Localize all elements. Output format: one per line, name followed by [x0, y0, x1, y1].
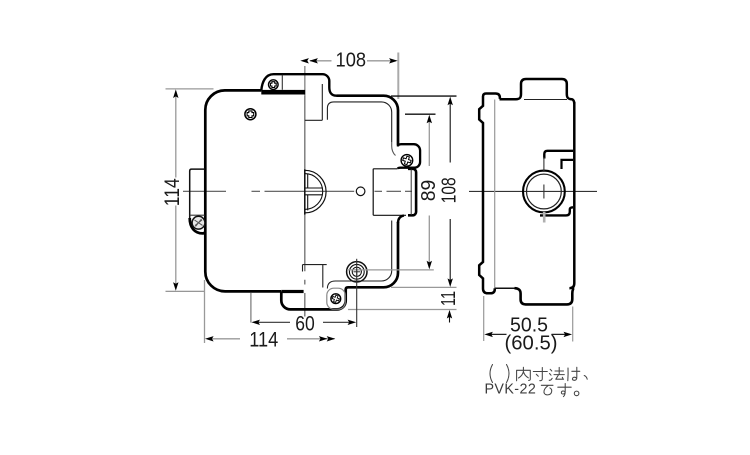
- lid inner line: [494, 100, 496, 289]
- （: [490, 365, 493, 383]
- svg-text:11: 11: [437, 291, 460, 306]
- で: [541, 385, 553, 395]
- screw top tab: [269, 80, 279, 90]
- top-right screw pocket: [398, 144, 420, 169]
- 、: [584, 376, 587, 380]
- screw left tab: [192, 216, 205, 229]
- dim 114 bottom: [204, 280, 206, 343]
- dim 89: [405, 113, 436, 115]
- lid profile: [479, 94, 495, 294]
- side hub collar bottom: [540, 207, 573, 215]
- svg-text:114: 114: [249, 327, 278, 351]
- circle centermarks: [543, 157, 545, 172]
- ）: [507, 365, 510, 383]
- centre knockout: [305, 169, 326, 214]
- box top edge + top hub: [500, 79, 575, 104]
- top tab bar: [261, 90, 305, 95]
- lid hinge tab top: [486, 94, 500, 99]
- box bottom edge thin: [495, 287, 516, 289]
- top tab: [261, 74, 336, 96]
- dim 108 right: [391, 95, 457, 97]
- box outline bottom/right: [281, 222, 398, 309]
- lid outline: [205, 90, 281, 291]
- screw lid top-left: [245, 109, 256, 120]
- dim 108 top: [397, 53, 399, 100]
- left tab: [190, 169, 205, 218]
- small hole: [356, 187, 365, 196]
- dim 50.5: [483, 296, 485, 341]
- top hub lines: [305, 84, 322, 120]
- box right edge: [569, 102, 574, 288]
- dim 11: [348, 309, 457, 311]
- dim 60: [250, 293, 252, 323]
- centerline horizontal: [469, 190, 597, 192]
- screw pocket screw: [401, 155, 413, 167]
- right tab inner line: [410, 169, 412, 215]
- svg-text:60: 60: [295, 312, 315, 336]
- す: [558, 384, 571, 397]
- svg-text:(60.5): (60.5): [505, 332, 558, 354]
- centerline vertical: [304, 66, 306, 96]
- svg-text:89: 89: [417, 180, 440, 202]
- svg-text:108: 108: [336, 49, 367, 72]
- right tab thick edge: [408, 169, 416, 216]
- dim 114 left: [166, 88, 214, 90]
- 法: [549, 367, 564, 380]
- side hub collar top: [544, 151, 573, 159]
- bottom screw pocket (grey): [327, 288, 345, 309]
- bottom hub lines: [303, 265, 327, 288]
- box inner line top: [327, 102, 391, 142]
- box top edge thin under hub: [524, 99, 567, 101]
- 内: [517, 367, 531, 381]
- svg-text:108: 108: [438, 177, 461, 203]
- top tab divider: [281, 75, 283, 90]
- svg-text:114: 114: [160, 178, 184, 206]
- 。: [574, 391, 579, 396]
- 寸: [533, 368, 547, 381]
- side hub collar notch: [562, 160, 574, 169]
- right side tab: [373, 169, 406, 216]
- centerline horizontal: [183, 190, 412, 192]
- screw pocket inner hook: [392, 142, 396, 156]
- は: [568, 367, 580, 380]
- box outline top: [337, 96, 399, 146]
- flare below right tab: [398, 216, 404, 224]
- conduit circle: [523, 171, 565, 213]
- bottom pocket screw: [331, 294, 341, 304]
- bottom hub: [515, 288, 575, 304]
- box inner line bottom: [327, 221, 391, 289]
- bottom-right boss: [347, 262, 367, 282]
- bottom tab bar: [281, 290, 303, 293]
- svg-text:PVK-22: PVK-22: [485, 382, 537, 398]
